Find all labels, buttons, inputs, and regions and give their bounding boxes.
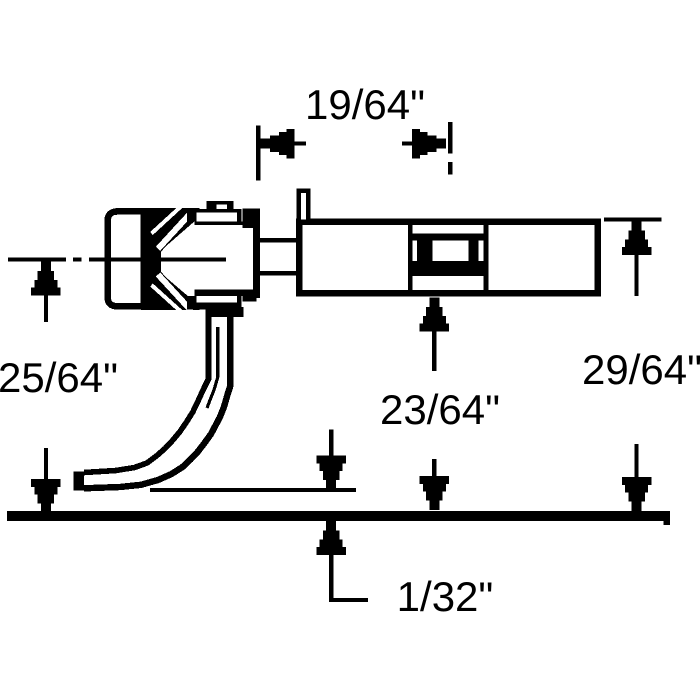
arrow down 29/64 (tip at rail)	[622, 444, 652, 511]
centerline dash-dot left of coupler	[8, 257, 66, 261]
trip pin level line	[150, 488, 356, 492]
svg-text:25/64": 25/64"	[0, 354, 118, 401]
arrow down 25/64 (tip at rail)	[31, 448, 61, 513]
center post right column	[469, 241, 479, 262]
arrow right 19/64 (points right)	[402, 129, 446, 159]
head bottom-right block	[243, 290, 257, 302]
arrow down 1/32 (tip at trip-pin level line)	[316, 430, 346, 490]
trip pin inner edge	[84, 312, 209, 473]
arrow up 25/64 (tip at centerline)	[31, 262, 61, 323]
centerline through coupler head	[89, 257, 226, 261]
arrow up 1/32 below rail (tip at rail bottom)	[316, 521, 346, 602]
extension line at gearbox top for 29/64	[604, 217, 661, 221]
center post bottom bar	[408, 261, 488, 276]
knuckle wall bump	[148, 246, 157, 274]
draft gear box	[299, 222, 598, 294]
coupler shank top line	[259, 238, 297, 242]
top tab notch	[217, 204, 227, 209]
white diagonal stripe lower inner	[158, 275, 192, 312]
white wedge opening of coupler head	[161, 217, 200, 306]
arrow down 23/64 (tip at rail)	[420, 459, 450, 510]
head bottom lid slot (white)	[196, 296, 237, 303]
leader line to 1/32 text	[329, 598, 368, 602]
center post right vertical line	[483, 225, 488, 294]
gear box ear (top-left tab)	[299, 191, 309, 222]
trip pin end cap	[74, 472, 85, 491]
arrow up 29/64 (tip at extension line)	[622, 221, 652, 296]
head bottom edge line	[195, 290, 243, 297]
head lid (raised top)	[187, 209, 242, 222]
head lid slot (white)	[196, 212, 237, 221]
head bottom lid (raised bottom)	[187, 296, 242, 310]
trip pin middle line	[207, 327, 218, 408]
knuckle face box (rounded)	[108, 211, 145, 306]
svg-text:23/64": 23/64"	[380, 386, 500, 433]
svg-text:19/64": 19/64"	[305, 81, 425, 128]
center post left column	[417, 241, 433, 262]
svg-text:29/64": 29/64"	[582, 346, 700, 393]
rail line	[7, 511, 669, 521]
rail end nub	[664, 511, 671, 525]
tick left of 19/64 dimension	[256, 125, 260, 180]
coupler shank bottom line	[259, 271, 297, 275]
arrow up 23/64 (tip at gearbox bottom)	[420, 298, 450, 372]
white diagonal stripe upper outer	[152, 206, 183, 234]
top tab on head	[206, 201, 233, 209]
trip pin mount	[206, 307, 244, 317]
center post left vertical line	[408, 225, 413, 294]
tick right of 19/64 dimension (dash-dot)	[448, 122, 452, 153]
trip pin outer edge	[84, 312, 230, 488]
trip pin body (white core)	[84, 312, 230, 488]
white diagonal stripe lower outer	[152, 285, 183, 313]
head right edge	[253, 209, 260, 299]
center post top flange	[413, 234, 484, 241]
head top edge line	[195, 222, 243, 226]
coupler head interior	[200, 225, 254, 291]
white diagonal stripe upper inner	[158, 212, 192, 249]
knuckle wall	[140, 212, 148, 306]
arrow left 19/64 (points left)	[261, 129, 307, 159]
head top-right raised block	[243, 209, 257, 229]
coupler knuckle jaw (black area)	[141, 208, 200, 310]
svg-text:1/32": 1/32"	[397, 573, 494, 620]
